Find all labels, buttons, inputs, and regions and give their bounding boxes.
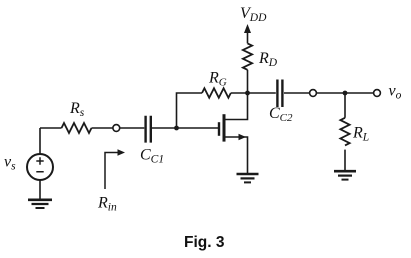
svg-text:Fig. 3: Fig. 3 — [184, 234, 225, 251]
